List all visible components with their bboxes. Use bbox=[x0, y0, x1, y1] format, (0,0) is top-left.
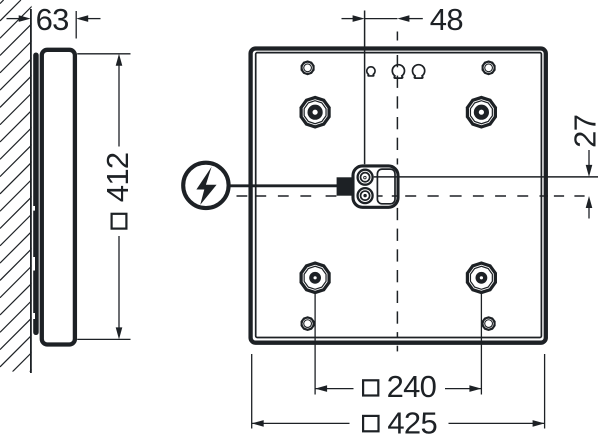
connector body bbox=[353, 166, 398, 207]
wall hatching bbox=[0, 0, 402, 402]
horizontal terminal axis line bbox=[374, 176, 598, 178]
dimension 48 left arrow bbox=[342, 18, 354, 20]
small mounting hole 1 bbox=[301, 60, 315, 75]
vertical center line (dashed) lower bbox=[396, 208, 398, 220]
svg-text:412: 412 bbox=[100, 153, 135, 203]
wall mounting plate bbox=[33, 53, 39, 336]
dimension 27 upper arrow bbox=[588, 150, 590, 166]
horizontal center line (dashed) right part bbox=[377, 195, 382, 197]
keyhole slot small bbox=[367, 67, 375, 76]
dimension text square425 bbox=[363, 416, 378, 431]
horizontal center line (dashed) left part bbox=[237, 195, 248, 197]
mounting boss 2 bbox=[466, 96, 497, 129]
dimension 412 top extension line bbox=[77, 53, 130, 55]
luminaire body (side view) bbox=[42, 50, 75, 345]
dimension 412 bottom extension line bbox=[77, 338, 130, 340]
terminal bottom bbox=[358, 188, 373, 203]
connector cable gland bbox=[337, 177, 353, 195]
luminaire outer square bbox=[251, 49, 546, 343]
svg-text:425: 425 bbox=[387, 405, 437, 434]
dimension 48 right arrow bbox=[397, 15, 409, 22]
dimension 63 extension line bbox=[75, 11, 77, 39]
svg-text:63: 63 bbox=[36, 2, 69, 37]
small mounting hole 3 bbox=[301, 316, 315, 331]
svg-text:27: 27 bbox=[568, 115, 600, 148]
dimension 63 right arrow bbox=[76, 15, 88, 22]
dimension 63 left arrow bbox=[7, 18, 20, 20]
dimension 48 line bbox=[365, 18, 398, 20]
dimension text 27 (rotated) bbox=[568, 115, 600, 148]
small mounting hole 4 bbox=[482, 316, 496, 331]
svg-text:48: 48 bbox=[430, 2, 463, 37]
dimension 240 left extension line bbox=[314, 293, 316, 395]
dimension 425 right arrow bbox=[449, 422, 545, 424]
dimension 27 lower arrow bbox=[586, 196, 593, 208]
terminal top bbox=[358, 170, 373, 185]
small mounting hole 2 bbox=[482, 60, 496, 75]
dimension 412 line with arrows bbox=[116, 54, 123, 66]
mounting boss 1 bbox=[300, 96, 331, 129]
vertical line through terminal axis bbox=[364, 11, 366, 165]
dimension 425 left extension line bbox=[251, 354, 253, 429]
dimension text square412 (rotated) bbox=[100, 153, 135, 229]
electrical supply circle bbox=[183, 163, 228, 208]
dimension 425 right extension line bbox=[544, 354, 546, 429]
dimension 240 left arrow bbox=[315, 385, 327, 392]
supply wire bbox=[230, 184, 338, 187]
mounting boss 4 bbox=[466, 261, 497, 294]
vertical center line (dashed) upper bbox=[396, 32, 398, 41]
dimension text square240 bbox=[363, 380, 378, 395]
dimension 425 left arrow bbox=[252, 420, 264, 427]
dimension 240 right arrow bbox=[445, 388, 481, 390]
mounting boss 3 bbox=[300, 261, 331, 294]
connector opening bbox=[377, 169, 395, 204]
wall surface line bbox=[30, 9, 32, 373]
lightning bolt bbox=[196, 167, 216, 205]
svg-text:240: 240 bbox=[387, 369, 437, 404]
keyhole slot right bbox=[413, 65, 425, 78]
keyhole slot center bbox=[392, 65, 404, 78]
dimension 240 right extension line bbox=[480, 293, 482, 395]
luminaire inner square bbox=[256, 53, 542, 338]
